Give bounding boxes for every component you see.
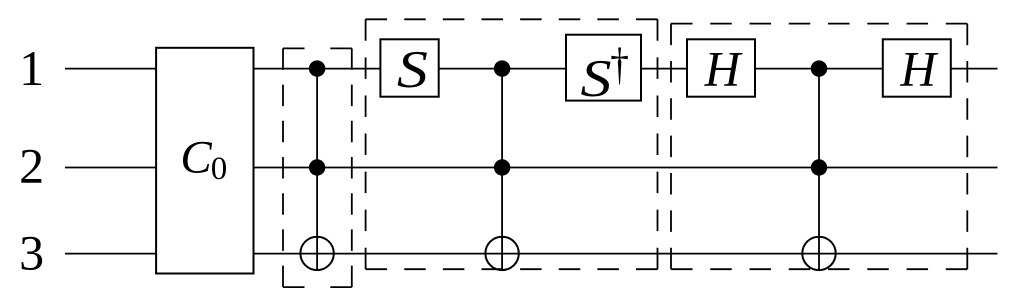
Toffoli 1 control dot on wire 2 [309,159,325,175]
wire qubit 1 [65,68,998,70]
gate box H (second) [883,39,951,96]
Toffoli 2 control dot on wire 1 [494,60,510,76]
Toffoli 2 vertical wire [501,69,503,271]
Toffoli 3 control dot on wire 2 [811,159,827,175]
Toffoli 3 control dot on wire 1 [811,60,827,76]
Toffoli 3 target XOR on wire 3 [802,237,835,270]
svg-text:S: S [580,50,611,108]
dashed box 1 (first Toffoli group) [283,48,352,287]
gate box H (first) [687,39,755,96]
Toffoli 3 vertical wire [818,69,820,271]
Toffoli 2 control dot on wire 2 [494,159,510,175]
svg-text:C: C [180,131,212,183]
svg-text:S: S [397,41,428,99]
svg-text:0: 0 [211,151,228,187]
gate box C0 [156,48,253,274]
Toffoli 1 vertical wire [316,69,318,271]
dashed box 2 (S / Toffoli / S-dagger group) [366,19,658,269]
dashed box 3 (H / Toffoli / H group) [671,24,967,270]
Toffoli 1 control dot on wire 1 [309,60,325,76]
wire qubit 2 [65,167,998,169]
wire qubit 3 [65,253,998,255]
svg-text:3: 3 [19,224,44,280]
svg-text:†: † [610,38,629,88]
svg-text:2: 2 [19,138,44,194]
svg-text:H: H [899,42,938,97]
Toffoli 1 target XOR on wire 3 [300,237,333,270]
gate box S-dagger [566,35,641,108]
gate box S [380,39,438,99]
svg-text:H: H [704,42,743,97]
svg-text:1: 1 [19,40,44,96]
Toffoli 2 target XOR on wire 3 [485,237,518,270]
